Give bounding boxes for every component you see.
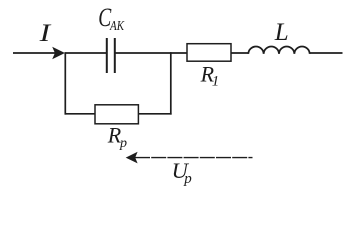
- label Rp: [107, 122, 127, 150]
- svg-text:p: p: [119, 136, 127, 151]
- svg-text:1: 1: [212, 74, 220, 90]
- svg-text:p: p: [183, 171, 192, 187]
- resistor R1: [187, 44, 231, 62]
- wire: top branch, junction to capacitor left plate: [65, 52, 106, 54]
- wire: output lead right: [310, 52, 343, 54]
- capacitor CAK right plate: [114, 38, 116, 73]
- wire: resistor R1 to inductor: [231, 52, 248, 54]
- svg-text:L: L: [274, 19, 289, 46]
- wire: right vertical of parallel loop: [170, 52, 172, 114]
- wire: right junction to resistor R1: [171, 52, 187, 54]
- svg-text:AK: AK: [109, 19, 124, 34]
- wire: input lead left: [13, 52, 58, 54]
- capacitor CAK left plate: [106, 38, 108, 73]
- label Up: [172, 158, 193, 187]
- current direction arrowhead on input wire: [52, 47, 65, 60]
- voltage Up dashed reference line: [135, 157, 253, 159]
- inductor L: [248, 46, 309, 53]
- wire: left vertical of parallel loop: [64, 52, 66, 114]
- wire: bottom branch, resistor Rp to right junction: [138, 113, 171, 115]
- label R1: [200, 62, 220, 90]
- wire: bottom branch, left junction to resistor Rp: [65, 113, 96, 115]
- resistor Rp: [95, 105, 138, 124]
- label CAK: [98, 3, 124, 34]
- wire: top branch, capacitor right plate to right junction: [115, 52, 171, 54]
- voltage Up arrowhead (points left): [126, 152, 138, 164]
